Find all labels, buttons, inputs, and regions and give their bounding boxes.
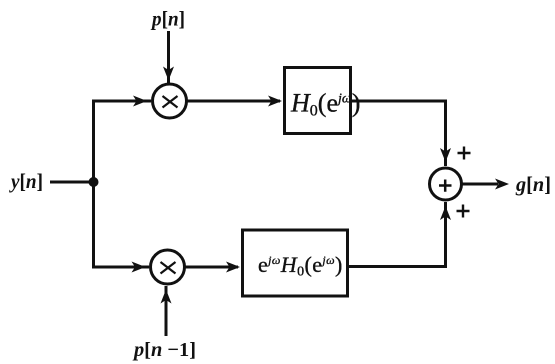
svg-text:g[n]: g[n]	[515, 172, 551, 196]
svg-text:p[n −1]: p[n −1]	[132, 339, 196, 361]
svg-text:y[n]: y[n]	[8, 169, 43, 193]
svg-text:p[n]: p[n]	[150, 7, 185, 31]
